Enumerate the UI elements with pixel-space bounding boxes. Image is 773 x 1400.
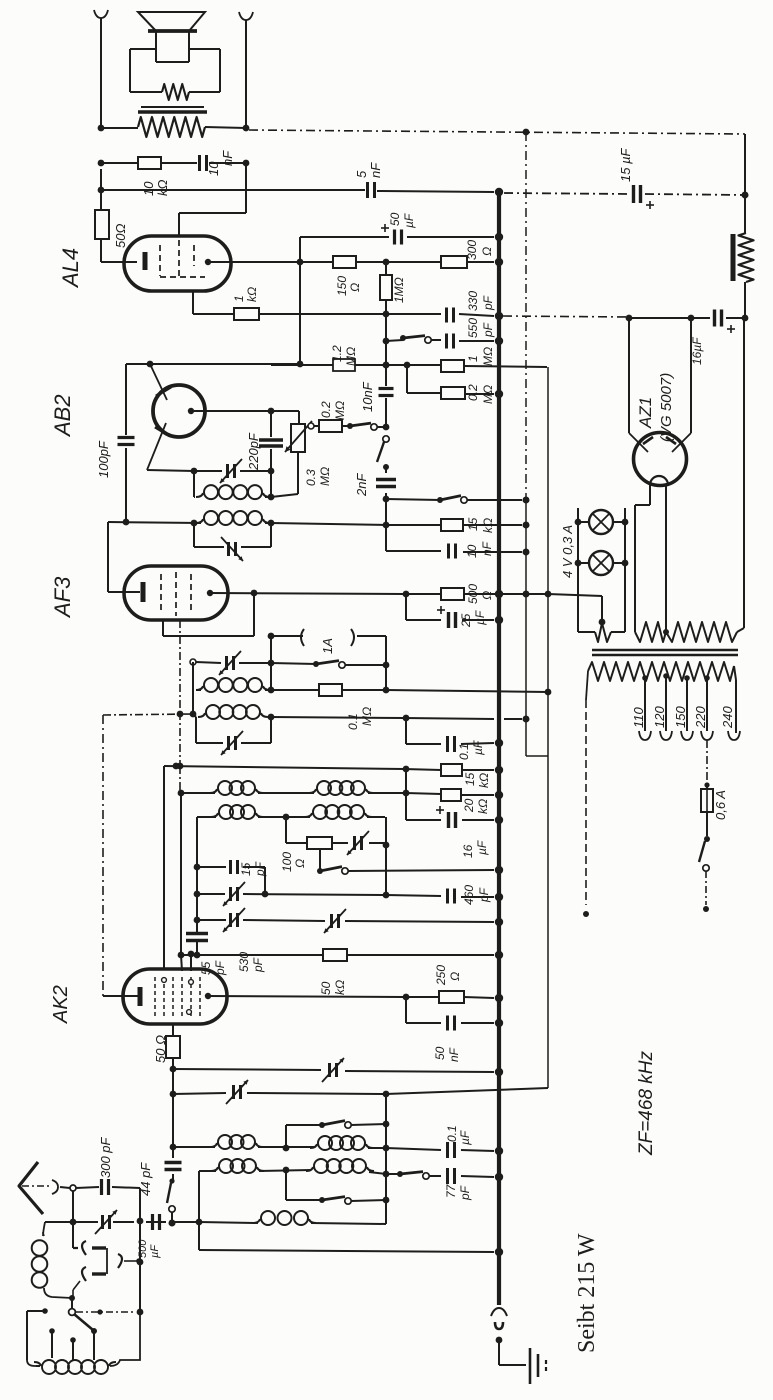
svg-text:0.1: 0.1	[445, 1125, 459, 1142]
svg-text:50: 50	[433, 1046, 447, 1060]
svg-text:460: 460	[462, 885, 476, 905]
resistor 1 kΩ	[234, 308, 259, 320]
svg-text:pF: pF	[477, 887, 491, 903]
label 1 kΩ	[232, 287, 259, 302]
capacitor 50 µF	[381, 224, 402, 245]
capacitor 460 pF	[448, 889, 455, 904]
resistor 50 Ω (osc)	[166, 1036, 180, 1058]
capacitor 2 nF	[376, 480, 396, 487]
resistor field coil (with core bar)	[733, 233, 754, 282]
svg-text:pF: pF	[251, 957, 265, 973]
wire x164 column (AK2 g4 lead)	[163, 766, 165, 969]
wire x181 column	[178, 766, 185, 971]
wire AF3 grid dash column x180	[177, 620, 184, 769]
resistor 0.2 MΩ (wiper)	[319, 420, 342, 432]
wire row y920	[197, 919, 502, 926]
svg-text:0.1: 0.1	[346, 713, 360, 730]
label 460 pF	[462, 885, 491, 905]
wire IF3 trimmer row y743	[196, 717, 271, 743]
lamp dial 2	[575, 551, 629, 575]
svg-text:0.1: 0.1	[457, 743, 471, 760]
wire x194 column (IF2)	[192, 662, 194, 714]
svg-text:AZ1: AZ1	[636, 397, 655, 429]
svg-text:300: 300	[465, 240, 479, 260]
wire AF3 anode row y593	[210, 590, 529, 598]
resistor 15 kΩ (screen)	[441, 764, 462, 776]
wire 0.1M row y690 right	[271, 665, 389, 693]
svg-text:pF: pF	[458, 1185, 472, 1201]
svg-text:µF: µF	[149, 1244, 161, 1258]
wire x199 column	[196, 1171, 203, 1250]
capacitor 330 pF	[447, 308, 454, 323]
coil band tap winding	[34, 1312, 140, 1374]
wire top bus row (AL4 anode feed)	[98, 187, 749, 199]
label 550 pF	[466, 318, 495, 338]
svg-text:77: 77	[444, 1183, 458, 1198]
terminal 150	[681, 731, 693, 740]
label 50 Ω osc	[153, 1035, 168, 1063]
ground symbol	[530, 1348, 546, 1384]
svg-text:0.3: 0.3	[304, 469, 318, 486]
resistor 150 Ω	[333, 256, 356, 268]
label 44 pF	[138, 1162, 153, 1196]
svg-text:15: 15	[463, 772, 477, 786]
svg-text:MΩ: MΩ	[481, 347, 495, 366]
wire 77pF row y1175	[386, 1171, 502, 1180]
winding heater 4V	[578, 619, 625, 642]
capacitor 10 nF (grid)	[379, 389, 394, 396]
wire column x386 (AF detector/grid line)	[383, 314, 390, 424]
resistor 1 MΩ (vertical)	[380, 262, 392, 314]
capacitor 100 pF	[118, 438, 135, 445]
svg-text:kΩ: kΩ	[477, 773, 491, 788]
resistor 1.2 MΩ	[333, 359, 355, 371]
trimmer capacitor band A	[347, 831, 369, 855]
wire AF3 screen bracket	[163, 593, 254, 636]
trimmer capacitor IF3	[221, 731, 243, 755]
terminal antenna input	[60, 1185, 76, 1191]
coil IF2 primary row y690	[196, 678, 274, 693]
junction dots bias line	[523, 497, 530, 723]
label 5 nF	[354, 162, 383, 178]
svg-text:MΩ: MΩ	[360, 707, 374, 726]
label 15 kΩ	[466, 517, 495, 533]
label AB2	[50, 394, 75, 438]
wire x300 column down to AB2 row	[297, 262, 304, 367]
tube AK2	[123, 969, 227, 1024]
wire AVC row y766	[164, 763, 502, 774]
resistor 0.2 MΩ (AVC)	[441, 387, 465, 399]
wire 16uF cathode row y820	[406, 817, 502, 824]
wire IF2 trimmer row y663	[190, 659, 274, 666]
wire AVC row y365	[271, 362, 547, 369]
capacitor 5 nF	[368, 182, 375, 198]
label 0.2 MΩ wiper	[319, 401, 347, 420]
wire AF3 grid lead	[108, 522, 140, 592]
wire 10nF-AF row y551	[386, 525, 529, 555]
svg-text:pF: pF	[481, 295, 495, 311]
wire x406 column down to 16uF	[405, 769, 407, 820]
wire row y717 right (to bus area)	[271, 715, 529, 723]
wire x386 to 2nF	[383, 467, 390, 525]
svg-text:Ω: Ω	[448, 972, 462, 981]
capacitor 77 pF	[448, 1168, 455, 1184]
capacitor 10 nF (AF)	[449, 544, 456, 559]
svg-text:330: 330	[466, 291, 480, 311]
trimmer capacitor band B	[324, 909, 346, 933]
variable capacitor tuning (ant)	[226, 1080, 248, 1104]
lamp chain left column	[577, 508, 579, 632]
capacitor 25 µF	[437, 606, 456, 628]
label 55 pF	[199, 960, 227, 976]
resistor 15 kΩ	[441, 519, 463, 531]
label AL4	[58, 248, 83, 289]
svg-text:ZF=468 kHz: ZF=468 kHz	[636, 1050, 657, 1156]
wire row 593 to heater winding	[548, 594, 605, 625]
wire 0.2M row y393	[407, 365, 502, 397]
svg-text:AL4: AL4	[58, 248, 83, 289]
coil osc row y1148	[170, 1135, 386, 1150]
coil IF3 row y717	[193, 705, 274, 720]
svg-text:nF: nF	[480, 541, 494, 556]
fuse 0.6 A	[701, 789, 713, 812]
coil band A2 row y817	[197, 805, 385, 820]
wire 16uF row	[629, 315, 748, 322]
wire 44pF column x172	[167, 1147, 175, 1226]
svg-text:MΩ: MΩ	[318, 467, 332, 486]
wire loop antenna	[43, 1222, 45, 1236]
svg-text:0,6 A: 0,6 A	[713, 790, 728, 820]
tube AZ1 leads	[626, 315, 691, 433]
wire bias column x526	[523, 129, 548, 756]
label 300 Ω	[465, 240, 494, 260]
svg-text:MΩ: MΩ	[344, 347, 358, 366]
svg-text:1: 1	[232, 295, 246, 302]
wire ground lead	[499, 1340, 526, 1365]
svg-text:10: 10	[141, 181, 156, 196]
svg-text:25: 25	[459, 613, 473, 628]
svg-text:240: 240	[720, 706, 735, 729]
svg-text:0.2: 0.2	[319, 401, 333, 418]
svg-text:pF: pF	[253, 861, 267, 877]
label 10 nF grid	[360, 381, 375, 412]
switch band osc1 row y1124	[283, 1121, 386, 1152]
capacitor 15 pF	[231, 860, 238, 874]
svg-text:1.2: 1.2	[330, 345, 344, 362]
wire antenna splits	[70, 1187, 140, 1248]
coil IF1 secondary	[196, 511, 270, 525]
wire IF1 primary sides	[193, 471, 195, 497]
coil band A1 row y793	[181, 781, 409, 796]
label ZF=468 kHz	[636, 1050, 657, 1156]
wire pot bottom to tank	[271, 452, 298, 497]
wire pot wiper row	[308, 423, 319, 429]
wire AVC dash row y714	[103, 711, 196, 718]
antenna symbol	[19, 1162, 58, 1214]
svg-text:MΩ: MΩ	[333, 401, 347, 420]
label 1.2 MΩ	[330, 345, 358, 366]
svg-text:pF: pF	[481, 322, 495, 338]
wire 50uF row y237	[300, 234, 502, 262]
output transformer core	[138, 107, 207, 112]
label 100 pF	[96, 440, 111, 478]
wire row 10k/10nF	[98, 160, 250, 167]
wire AVC left column x103	[103, 715, 140, 996]
svg-text:AB2: AB2	[50, 394, 75, 438]
capacitor 55 pF	[186, 934, 208, 941]
svg-text:5: 5	[354, 170, 369, 178]
trimmer capacitor IF1 primary	[220, 459, 242, 483]
capacitor 44 pF	[165, 1163, 182, 1170]
label AZ1	[636, 397, 655, 429]
label 120	[652, 706, 667, 728]
wire tuning row y1093	[173, 1088, 548, 1097]
switch pickup row y499	[386, 496, 529, 504]
coil ant row y1171	[199, 1159, 386, 1174]
svg-text:µF: µF	[475, 840, 489, 855]
labels 0.2/1 MΩ	[466, 347, 495, 404]
wire 50nF branch	[406, 997, 502, 1026]
switch IF shorting row y664	[271, 661, 389, 669]
wire 0.1uF branch	[406, 718, 502, 746]
resistor 250 Ω	[439, 991, 464, 1003]
switch tone 550pF	[400, 335, 431, 343]
svg-text:10: 10	[465, 544, 479, 558]
connector pickup arcs	[73, 1241, 142, 1296]
wire AL4 cathode lead	[101, 169, 137, 262]
svg-text:kΩ: kΩ	[155, 180, 170, 197]
trimmer capacitor 530 pF	[223, 908, 245, 932]
svg-text:100pF: 100pF	[96, 440, 111, 478]
svg-text:nF: nF	[220, 150, 235, 166]
wire row y364 (AB2 plate feed)	[126, 361, 300, 368]
label 330 pF	[466, 291, 495, 311]
wire band switch dash row y1312	[76, 1309, 136, 1314]
label 0.1 µF osc	[445, 1125, 472, 1145]
svg-text:1MΩ: 1MΩ	[392, 277, 406, 303]
label 240	[720, 706, 735, 729]
svg-text:550: 550	[466, 318, 480, 338]
svg-text:50: 50	[319, 981, 333, 995]
svg-text:500: 500	[137, 1239, 149, 1258]
taps 110-240	[645, 676, 707, 731]
svg-text:110: 110	[631, 707, 646, 728]
wire x385 column osc	[383, 1095, 390, 1224]
speaker throat	[156, 31, 189, 62]
bus chassis (thick)	[497, 192, 501, 1305]
transformer core	[592, 650, 738, 655]
svg-text:kΩ: kΩ	[481, 518, 495, 533]
svg-text:250: 250	[434, 965, 448, 986]
capacitor 0.1 µF (osc)	[448, 1142, 455, 1158]
wire AB2 cathode row y411	[191, 408, 299, 424]
connector chassis link	[491, 1308, 507, 1343]
wire diode load row y524 (to 15k)	[271, 522, 529, 529]
label 10 nF	[206, 150, 235, 176]
svg-text:1: 1	[466, 355, 480, 362]
winding HV right	[666, 318, 744, 642]
label 250 Ω	[434, 965, 462, 986]
wire tuning row y1069	[173, 1069, 502, 1076]
label 10 kΩ	[141, 180, 170, 197]
label 220 pF	[246, 432, 261, 471]
terminal 240	[728, 731, 740, 740]
svg-text:220: 220	[693, 706, 708, 729]
wire 460pF row y895	[386, 894, 502, 901]
label 500 Ω	[466, 584, 494, 604]
label 15 kΩ screen	[463, 772, 491, 788]
label 50 nF	[433, 1046, 461, 1062]
svg-text:kΩ: kΩ	[245, 287, 259, 302]
resistor 50 Ω (AL4 feed)	[95, 210, 109, 239]
wire right column x745	[742, 134, 749, 318]
tube AL4	[124, 236, 231, 291]
capacitor 50 nF	[448, 1016, 455, 1031]
title Seibt 215 W	[574, 1233, 600, 1353]
wire trimmer row y894	[197, 894, 386, 895]
svg-text:10nF: 10nF	[360, 381, 375, 412]
wire 25uF branch	[406, 594, 502, 623]
svg-text:(VG 5007): (VG 5007)	[658, 373, 675, 442]
lamp chain right column	[624, 508, 626, 632]
wire AK2 cathode column x172	[170, 1024, 177, 1147]
switch gram (on x386)	[377, 424, 389, 470]
label 77 pF	[444, 1183, 472, 1201]
fuse 1A arcs	[268, 629, 386, 690]
output transformer primary winding	[98, 117, 250, 137]
svg-text:220pF: 220pF	[246, 432, 261, 471]
resistor 300 Ω	[441, 256, 467, 268]
label 15 µF	[618, 147, 633, 182]
svg-text:100: 100	[280, 852, 294, 872]
resistor 50 kΩ	[323, 949, 347, 961]
wire x386 column 817-895	[383, 817, 390, 898]
wire heater return column x548	[545, 367, 552, 1088]
trimmer capacitor osc padder	[223, 882, 245, 906]
winding HV left	[635, 622, 666, 642]
capacitor 16 µF	[715, 310, 736, 334]
label 15 pF	[239, 861, 267, 877]
wire 220pF column x271	[268, 411, 275, 500]
label 1A	[320, 638, 335, 654]
switch band selector	[69, 1295, 97, 1334]
label 530 pF	[237, 952, 265, 973]
wire ant tuning row y1222	[45, 1220, 175, 1227]
label 50 Ω	[113, 224, 128, 248]
speaker cone	[138, 12, 205, 31]
tube AB2	[147, 364, 205, 470]
svg-text:µF: µF	[471, 740, 485, 755]
wire 550pF tone row y341	[386, 338, 502, 345]
svg-text:AF3: AF3	[50, 576, 75, 619]
svg-text:15 µF: 15 µF	[618, 147, 633, 182]
resistor 0.1 MΩ	[319, 684, 342, 696]
svg-text:16: 16	[461, 844, 475, 858]
svg-text:10: 10	[206, 161, 221, 176]
terminal 110	[639, 731, 651, 740]
tube AF3	[124, 566, 228, 620]
svg-text:µF: µF	[402, 213, 416, 228]
wire x286 column + 100Ω row y843	[286, 817, 389, 848]
wire AL4 screen lead	[179, 163, 246, 236]
terminal 220	[701, 731, 713, 740]
lamp dial 1	[575, 510, 629, 534]
wire primary right lead	[734, 666, 736, 733]
coil ant coupling row y1222	[172, 1211, 386, 1225]
svg-text:150: 150	[335, 276, 349, 296]
wire 15pF row y867	[197, 867, 268, 897]
svg-text:20: 20	[462, 798, 476, 813]
label 300 pF	[98, 1136, 113, 1178]
svg-text:kΩ: kΩ	[333, 980, 347, 995]
wire AK2 anode row y997	[208, 994, 502, 1002]
switch band A row y871	[317, 849, 494, 874]
wire x197 column (tank left)	[194, 817, 201, 958]
svg-text:4 V 0,3 A: 4 V 0,3 A	[560, 525, 575, 578]
wire bottom row y1250	[199, 1249, 502, 1256]
wire 330pF row extension (dash-dot)	[503, 316, 629, 317]
wire row y690 to heater line	[386, 689, 551, 696]
svg-text:Ω: Ω	[293, 859, 307, 868]
wire AZ1 filament leads	[635, 485, 669, 635]
svg-text:15: 15	[239, 862, 253, 876]
svg-text:300 pF: 300 pF	[98, 1136, 113, 1178]
label AK2	[50, 985, 72, 1024]
resistor 1 MΩ (AVC)	[441, 360, 464, 372]
label 25 µF	[459, 610, 487, 628]
switch AVC (wiper to grid line)	[342, 423, 389, 430]
coil IF1 primary	[194, 485, 271, 499]
wire x140 column	[137, 1188, 144, 1315]
wire AL4 anode row y262	[208, 259, 502, 266]
label 10 nF AF	[465, 541, 494, 558]
wire 0.1uF row y1150	[386, 1148, 502, 1155]
svg-text:AK2: AK2	[50, 985, 72, 1024]
wire row 593 right of bus	[494, 593, 548, 595]
wire IF1 secondary trimmer row y547	[194, 523, 271, 547]
wire fuse column	[704, 740, 709, 789]
terminal right speaker	[239, 12, 253, 128]
label 4V 0.3A	[560, 525, 575, 578]
svg-text:50: 50	[388, 212, 402, 226]
svg-text:150: 150	[673, 706, 688, 728]
junction bus y870	[496, 867, 503, 874]
wire band switch frame	[27, 1308, 48, 1366]
svg-text:MΩ: MΩ	[481, 385, 495, 404]
svg-text:120: 120	[652, 706, 667, 728]
wire heater row (dash-dot) to rectifier column	[249, 130, 745, 134]
coil loop antenna	[32, 1232, 72, 1298]
capacitor 220 pF	[259, 440, 283, 446]
label 50 µF	[388, 212, 416, 228]
svg-text:kΩ: kΩ	[476, 799, 490, 814]
wire 100pF top lead	[125, 364, 127, 435]
wire IF1 secondary row y522	[108, 519, 274, 527]
label 0.1 MΩ	[346, 707, 374, 730]
variable capacitor antenna	[95, 1210, 117, 1234]
resistor 500 Ω	[441, 588, 464, 600]
label 220	[693, 706, 708, 729]
resistor 100 Ω	[307, 837, 332, 849]
label 16 µF	[690, 337, 704, 365]
terminal 120	[660, 731, 672, 740]
svg-text:2nF: 2nF	[354, 473, 369, 497]
label 500	[137, 1239, 161, 1258]
svg-text:0.2: 0.2	[466, 384, 480, 401]
capacitor 0.1 µF (cathode)	[448, 736, 455, 752]
svg-text:50Ω: 50Ω	[113, 224, 128, 248]
tube AZ1	[629, 433, 691, 486]
